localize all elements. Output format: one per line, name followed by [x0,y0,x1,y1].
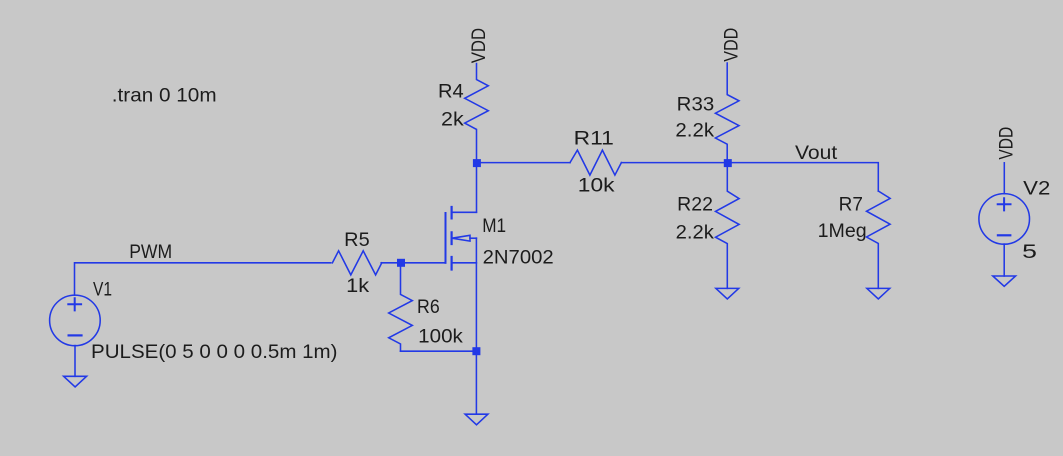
wire M1 drain up to node [476,163,478,213]
V1 plus mark [68,298,81,310]
M1 bulk stub [470,237,476,239]
svg-text:V1: V1 [93,279,112,300]
V2 circle [979,194,1030,245]
transistor M1 2N7002 [446,207,477,270]
wire V2 bottom to ground [1003,244,1005,276]
svg-text:R7: R7 [839,195,863,216]
svg-text:R6: R6 [417,297,440,318]
ground V2 [993,276,1016,286]
junction node source/R6 [472,347,480,355]
svg-text:Vout: Vout [795,143,838,164]
svg-text:5: 5 [1022,242,1037,263]
junction node drain [473,159,481,167]
wire R11 to divider node [621,162,727,164]
ground M1 source [465,414,488,425]
V1 circle [50,295,101,346]
wire VDD to V2 [1003,163,1005,194]
ground V1 [64,376,87,387]
resistor R5 [332,251,381,275]
svg-text:2.2k: 2.2k [675,120,714,141]
svg-text:VDD: VDD [469,28,490,63]
svg-text:V2: V2 [1023,179,1050,200]
svg-text:10k: 10k [578,176,615,197]
svg-text:1Meg: 1Meg [818,221,867,242]
wire V1 bottom to ground [74,346,76,377]
svg-text:2N7002: 2N7002 [483,247,554,268]
svg-text:VDD: VDD [722,28,743,62]
svg-text:2.2k: 2.2k [676,223,715,244]
svg-text:2k: 2k [441,109,464,130]
ground R22 [716,288,739,299]
resistor R11 [570,150,621,175]
svg-text:PWM: PWM [129,242,172,263]
M1 gate bar [445,213,447,263]
resistor R33 [715,63,739,163]
wire divider node to R7 [727,163,878,191]
resistor R22 [716,163,740,289]
svg-text:VDD: VDD [997,127,1018,160]
svg-text:1k: 1k [346,276,370,297]
voltage source V2 [979,194,1030,245]
resistor R7 [867,191,891,288]
ground R7 [867,288,890,299]
svg-text:R4: R4 [438,81,464,102]
svg-text:100k: 100k [418,327,463,348]
junction node gate/R5/R6 [397,259,405,267]
wire V1 top to R5 [75,263,331,295]
V1 minus mark [69,334,82,336]
M1 source stub [452,262,477,264]
svg-text:R22: R22 [677,194,713,215]
svg-text:R11: R11 [574,128,614,149]
M1 drain stub [452,211,477,213]
voltage source V1 [50,295,101,346]
resistor R6 [389,263,413,351]
junction node divider [724,159,732,167]
V2 minus mark [998,234,1010,236]
M1 bulk arrow [452,235,470,241]
wire drain node to R11 [477,162,571,164]
wire M1 source down to ground [475,238,477,414]
svg-text:.tran 0 10m: .tran 0 10m [112,85,217,106]
wire R6 bottom to source node [401,350,477,352]
svg-text:R5: R5 [344,230,370,251]
wire R5 to M1 gate [381,262,445,264]
V2 plus mark [998,198,1011,210]
svg-text:PULSE(0 5 0 0 0 0.5m 1m): PULSE(0 5 0 0 0 0.5m 1m) [91,342,338,363]
resistor R4 [465,64,489,163]
M1 channel segments [451,207,453,270]
svg-text:M1: M1 [482,216,506,237]
svg-text:R33: R33 [677,94,715,115]
